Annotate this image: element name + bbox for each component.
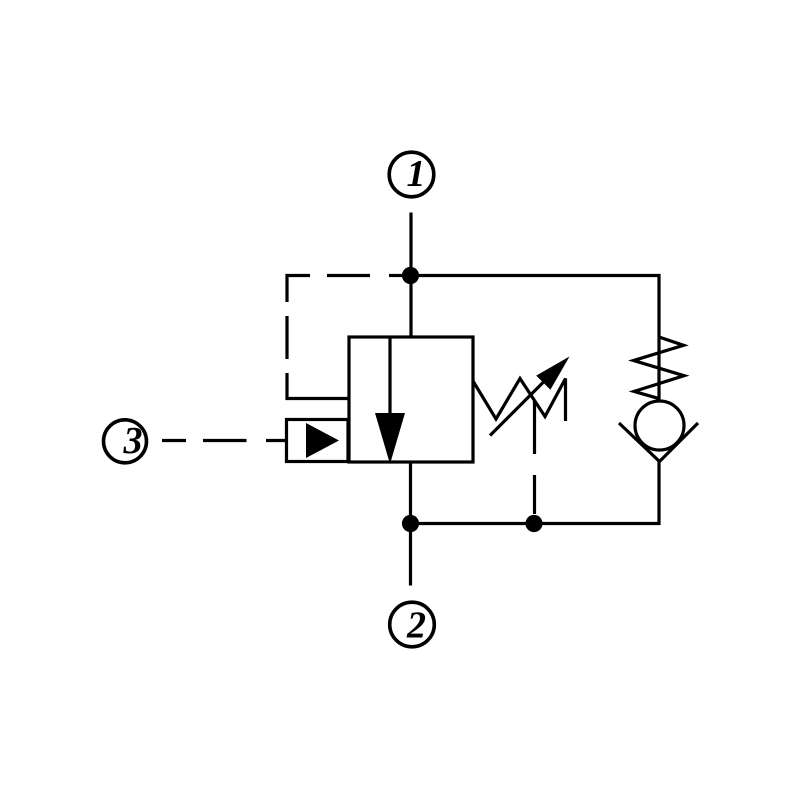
svg-text:2: 2 [406, 605, 426, 647]
svg-text:3: 3 [123, 420, 143, 462]
svg-text:1: 1 [407, 153, 426, 195]
